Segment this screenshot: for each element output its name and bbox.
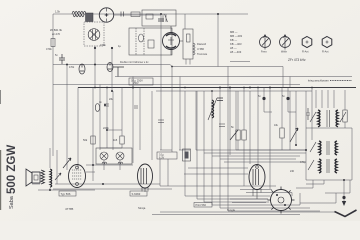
wire v220 fan: [220, 88, 310, 209]
junction tick at speaker transformer: [55, 173, 61, 180]
wire v218: [217, 14, 219, 67]
svg-text:Print 560: Print 560: [196, 203, 207, 207]
cap at 62: [59, 54, 65, 64]
wire v345: [344, 90, 346, 128]
wire y172: [86, 171, 95, 173]
wire y203: [300, 193, 336, 203]
wire y165: [86, 164, 133, 166]
wire v212 fan: [212, 91, 300, 205]
tube B: [138, 164, 153, 192]
svg-text:krieg anschlossen: krieg anschlossen: [308, 79, 329, 83]
svg-text:1k5: 1k5: [113, 138, 118, 142]
wire nested v290: [289, 77, 291, 89]
svg-text:KB —403: KB —403: [230, 42, 242, 46]
svg-text:LB —403: LB —403: [230, 50, 242, 54]
svg-text:S 6063: S 6063: [132, 192, 141, 196]
trimmer arrows IF1: [310, 112, 346, 122]
wire v161: [160, 14, 162, 150]
wire v250: [249, 91, 251, 164]
label box Typ: [59, 191, 76, 196]
resistors mid verticals: [91, 110, 347, 144]
wire v172: [171, 67, 173, 153]
wire v270: [269, 88, 271, 190]
wire v107: [106, 88, 108, 149]
svg-text:Fl-Ant: Fl-Ant: [322, 51, 329, 54]
svg-text:240: 240: [290, 170, 295, 173]
wire v328: [327, 90, 329, 108]
svg-text:ZFr 473 kHz: ZFr 473 kHz: [288, 58, 306, 62]
resistor small left column: [51, 39, 55, 47]
tall box with coil (U586): [183, 29, 195, 59]
wires: main grid: [53, 14, 352, 156]
svg-text:47785: 47785: [65, 207, 74, 211]
right block wires: [296, 90, 352, 203]
cap tick on bus: [121, 12, 124, 17]
oscillator box upper: [142, 10, 176, 26]
bus bold y87.5: [78, 87, 356, 89]
wire v78: [77, 88, 79, 170]
wire v236: [236, 91, 306, 150]
wire y189: [53, 188, 172, 190]
wire y130 stub: [107, 129, 122, 131]
output transformer coil: [50, 169, 52, 187]
box tops y150: [160, 149, 190, 151]
wire v230: [229, 88, 231, 156]
tube A (output): [69, 165, 86, 188]
wire v140: [139, 88, 141, 151]
wire v322: [321, 90, 323, 108]
cap at v161: [158, 19, 164, 21]
wire top bus y14: [53, 13, 248, 15]
svg-text:50k: 50k: [83, 138, 88, 142]
svg-text:Trennste: Trennste: [197, 52, 208, 56]
wire v50: [38, 148, 95, 190]
wire fan y162-174: [184, 162, 306, 174]
bottom-left section wires: [32, 91, 336, 215]
wire right step y61.5: [230, 61, 250, 63]
svg-text:MB —403: MB —403: [230, 34, 242, 38]
more dots: [94, 13, 313, 106]
cap blobs: [262, 97, 265, 100]
IF transformer 1: [318, 110, 338, 127]
knob 4 hex: [322, 37, 332, 48]
lamps box: [96, 148, 132, 164]
wire v324 below box: [306, 180, 324, 184]
wire v180: [179, 77, 181, 151]
wire v185 fan: [185, 91, 270, 196]
wire v244: [243, 88, 245, 187]
wire bus y64.5: [53, 65, 283, 89]
left edge smudge: [0, 90, 1, 104]
wire bus y91: [156, 90, 312, 92]
svg-text:Saba: Saba: [9, 195, 15, 209]
knob 2: [280, 35, 291, 50]
speaker: [26, 169, 40, 186]
label boxes bottom middle: [194, 203, 212, 208]
small tube ovals on y64: [79, 63, 124, 77]
svg-text:Tungla: Tungla: [227, 208, 235, 212]
svg-text:MB —: MB —: [230, 30, 238, 34]
svg-text:470k: 470k: [69, 66, 75, 69]
wire y184 heater: [55, 183, 160, 185]
svg-text:470p: 470p: [300, 161, 306, 164]
title Saba 500 ZGW (vertical): [6, 145, 18, 209]
svg-text:250V: 250V: [133, 82, 139, 85]
wire v93: [92, 88, 94, 182]
svg-text:KB —: KB —: [230, 38, 237, 42]
wire v258: [257, 88, 259, 165]
svg-text:Ferro: Ferro: [261, 51, 267, 54]
wire bus to tall box: [184, 14, 186, 29]
wire socket wrap top: [160, 186, 292, 196]
hatched box (coil core): [86, 13, 94, 22]
mixer box: [129, 28, 172, 55]
wire v238: [237, 91, 239, 150]
svg-text:Typ 566: Typ 566: [61, 192, 71, 196]
wire v204 fan: [204, 91, 269, 202]
tall box stubs: [186, 59, 190, 65]
wire v152: [151, 91, 153, 160]
wire v282: [281, 88, 283, 150]
wire left border x53: [52, 14, 54, 156]
wire v296: [295, 91, 297, 145]
svg-text:470k: 470k: [100, 43, 106, 47]
wire bus y84.5: [53, 84, 300, 86]
knob 1: [260, 35, 271, 50]
wire v112: [111, 48, 113, 91]
wire bus y76.5: [115, 76, 352, 78]
socket: [268, 187, 295, 214]
coil dark at v212: [208, 98, 217, 120]
ground symbol: [335, 196, 357, 217]
wire v122: [100, 88, 122, 149]
tube C: [249, 165, 265, 200]
label box 0,1u 6,3V: [157, 152, 177, 159]
field coil hatch: [41, 170, 45, 184]
box 0,1u 250V: [129, 78, 153, 85]
caps on v220: [217, 98, 223, 101]
wire v95: [94, 46, 96, 88]
wire v350: [325, 180, 350, 193]
component box x183: [183, 149, 191, 161]
vertical wires: [67, 14, 320, 211]
wire v57: [56, 150, 58, 184]
resistor on top bus: [131, 12, 140, 17]
wire v312: [311, 88, 313, 141]
cap on v161: [158, 120, 164, 123]
svg-text:1,5k: 1,5k: [55, 10, 61, 14]
dashed box + tube V1: [84, 22, 104, 46]
svg-text:220k: 220k: [103, 126, 109, 130]
wire v334: [333, 90, 335, 108]
IF transformer 2: [319, 141, 337, 155]
svg-text:ZF B41 9k: ZF B41 9k: [50, 28, 63, 32]
wire speaker loop: [32, 172, 40, 184]
wire v264: [264, 88, 272, 113]
wire bottom y212: [152, 212, 336, 215]
box right outer: [306, 128, 352, 180]
cap near coil: [219, 124, 225, 127]
svg-text:Dianord: Dianord: [197, 42, 207, 46]
wire v228 fan: [228, 67, 320, 212]
wire v113: [112, 91, 114, 150]
svg-text:LB —: LB —: [230, 46, 237, 50]
labels Dianord etc: [197, 42, 208, 56]
svg-text:470k: 470k: [46, 47, 52, 51]
text table right of mixer: [230, 30, 242, 54]
tube T1 (top round): [99, 8, 113, 22]
svg-text:Drehko mit 3 Glimmer u 2x: Drehko mit 3 Glimmer u 2x: [120, 61, 149, 64]
wire v67: [66, 65, 68, 171]
wire v316: [315, 90, 317, 108]
cap at IF1 left: [306, 108, 310, 120]
svg-text:Fl-Ant: Fl-Ant: [302, 51, 309, 54]
svg-text:am 470: am 470: [52, 33, 61, 36]
knob 3 hex: [302, 37, 312, 48]
pot arrows: [63, 128, 298, 168]
wire v288: [288, 88, 296, 113]
wire ground v344: [343, 180, 345, 201]
svg-text:Welle: Welle: [281, 51, 288, 54]
svg-text:500 ZGW: 500 ZGW: [6, 145, 18, 194]
IF transformer 3: [319, 159, 337, 173]
svg-text:U 586: U 586: [197, 47, 204, 51]
wire lamp drop: [104, 160, 120, 170]
svg-text:6,3V: 6,3V: [159, 156, 164, 159]
wire from T1 to right: [114, 14, 161, 16]
wire v313 below box: [296, 180, 313, 188]
small oval cap left-middle: [95, 104, 138, 112]
antenna coil scribble: [72, 11, 86, 17]
tube T2 circle: [163, 26, 184, 55]
svg-text:Stroja: Stroja: [138, 206, 146, 210]
wire v290 low: [289, 91, 291, 150]
wire v306: [305, 91, 307, 128]
wire socket left ys: [230, 199, 268, 203]
wire v197 fan: [197, 91, 268, 199]
wire v133: [132, 77, 134, 164]
wire right fan y150s: [196, 91, 306, 159]
wire v100: [99, 85, 101, 151]
